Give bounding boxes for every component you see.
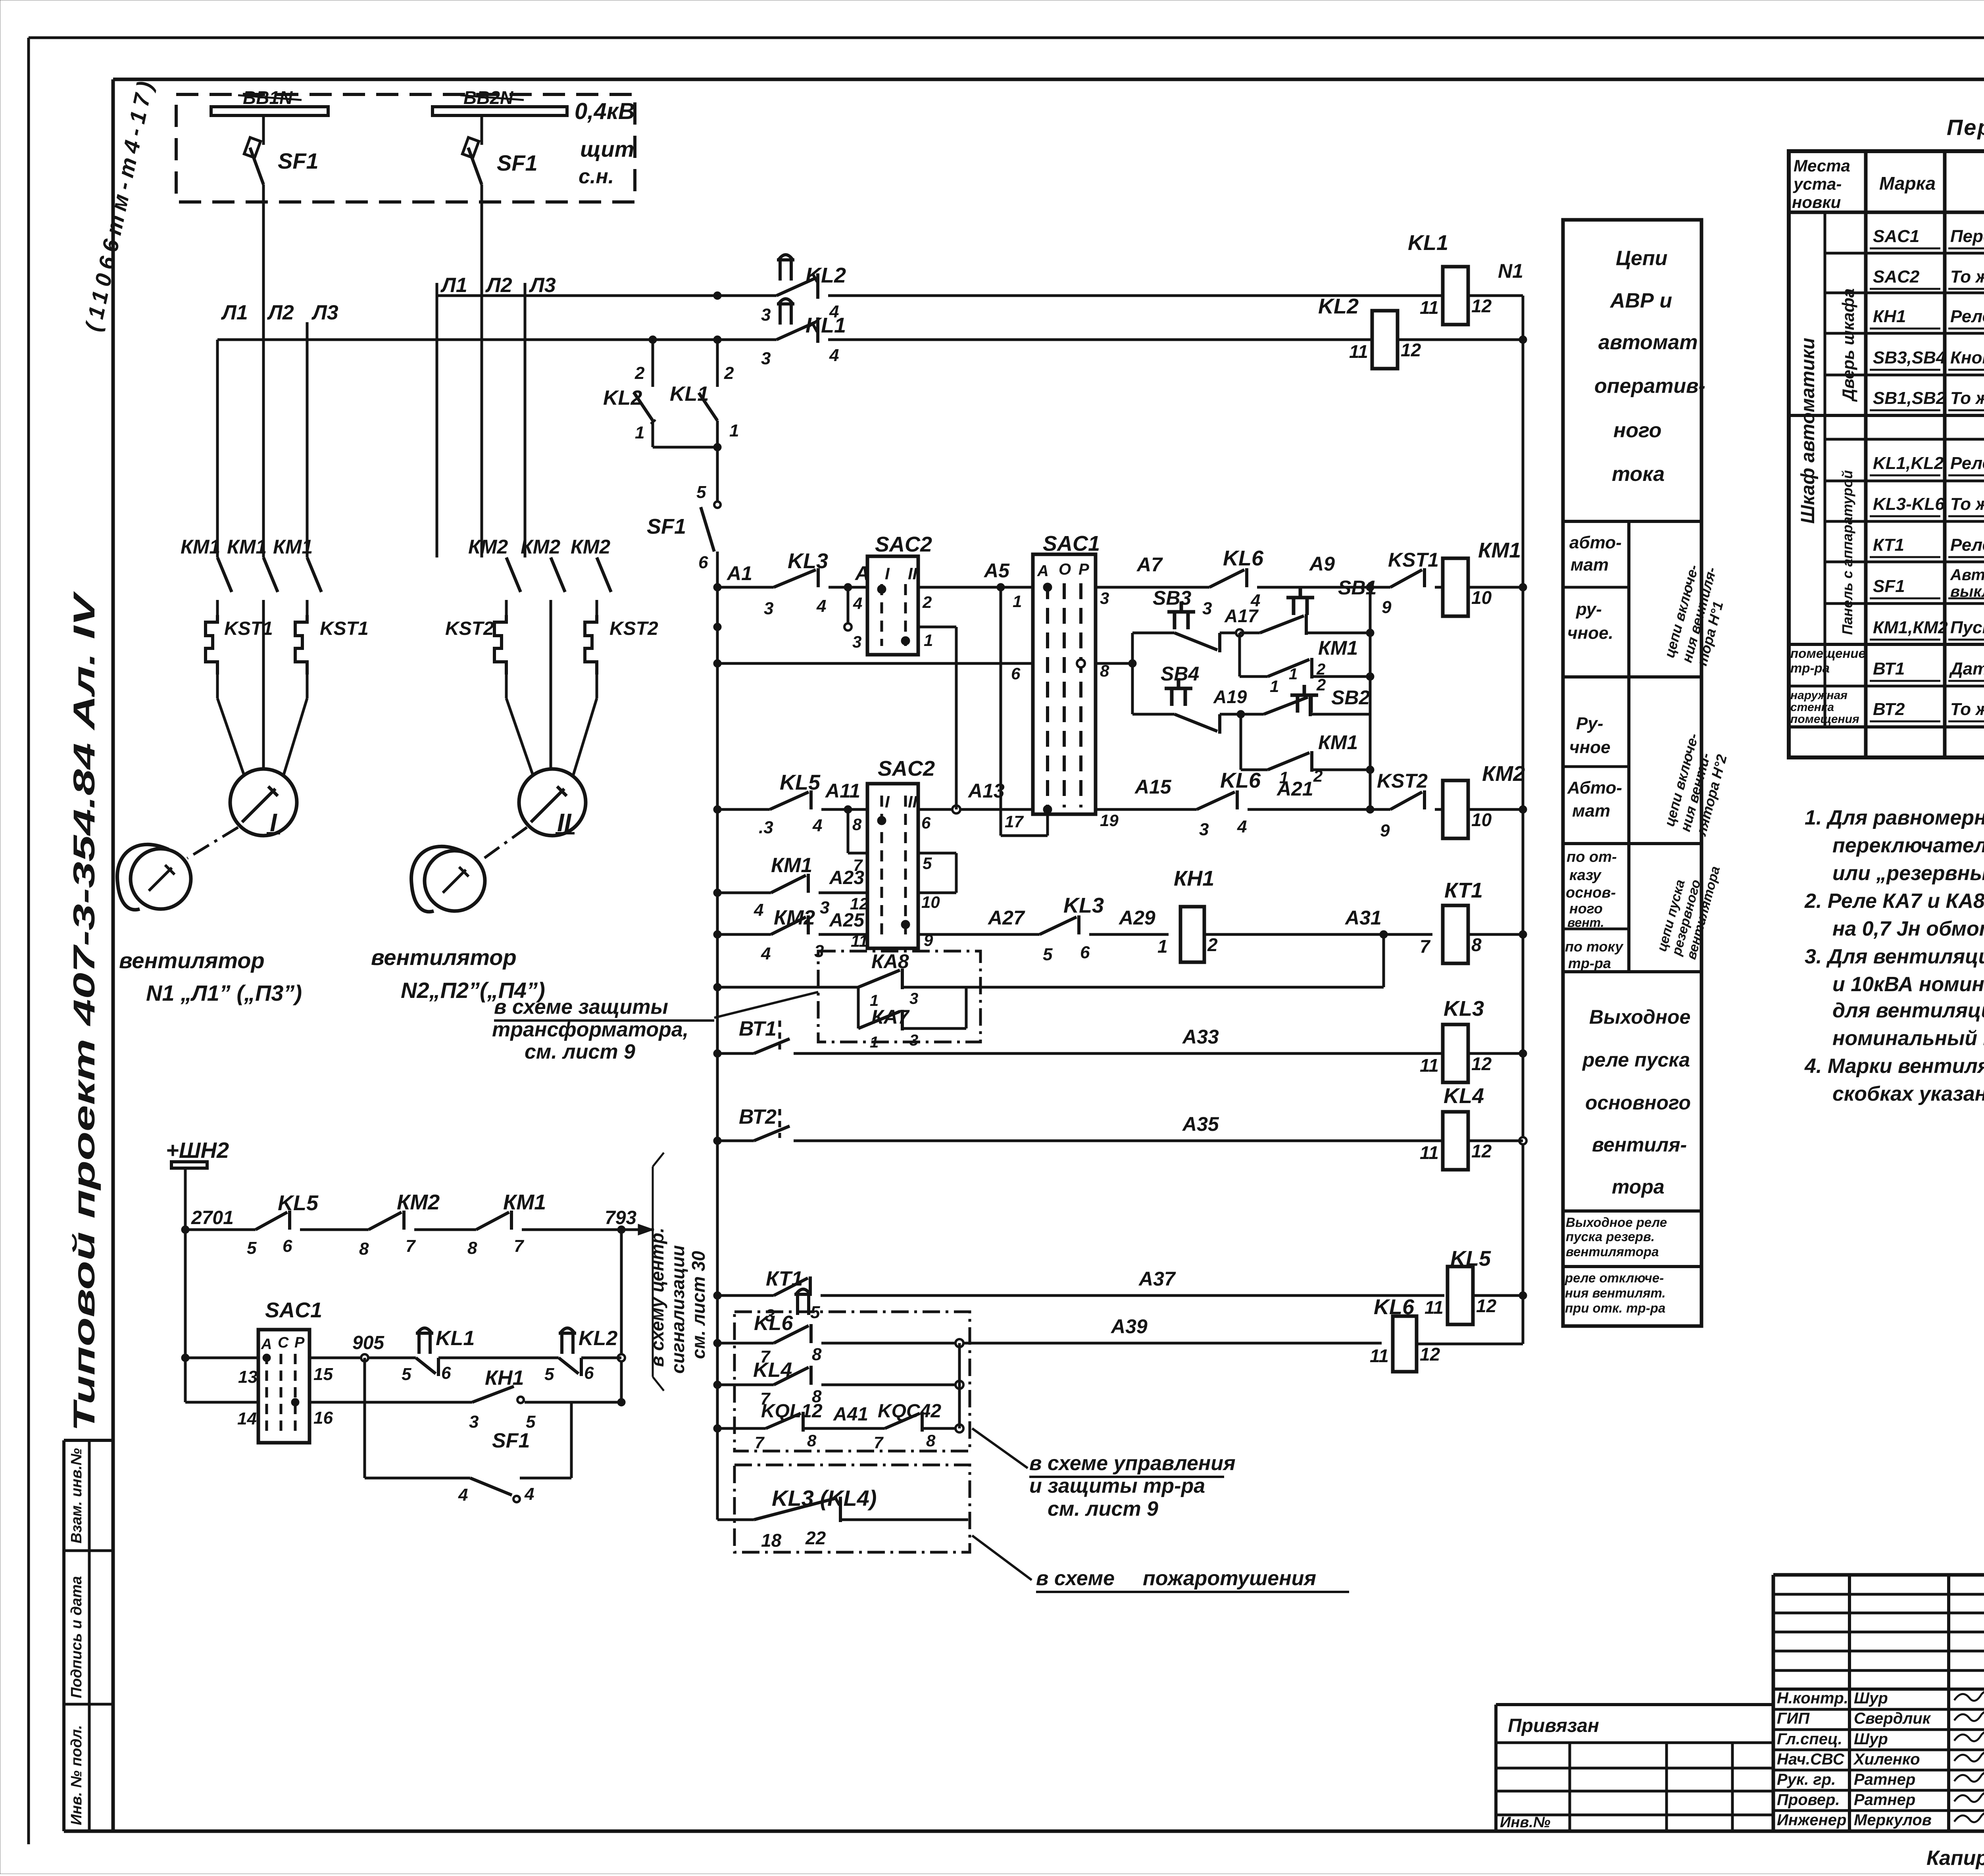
annotation пожаротушение: [972, 1536, 1032, 1580]
svg-text:Реле указательное: Реле указательное: [1950, 307, 1984, 326]
svg-text:14: 14: [237, 1409, 257, 1428]
svg-text:8: 8: [812, 1345, 822, 1364]
svg-text:автомат: автомат: [1598, 331, 1698, 354]
svg-text:6: 6: [584, 1363, 594, 1383]
svg-text:КМ1: КМ1: [1478, 538, 1521, 562]
box управления tr dash-dot: [734, 1312, 970, 1451]
svg-text:4: 4: [1237, 817, 1247, 836]
svg-text:SAC1: SAC1: [1043, 532, 1100, 555]
coil KM2: [1435, 808, 1443, 811]
svg-text:основ-: основ-: [1566, 884, 1616, 901]
svg-text:вентилятора: вентилятора: [1566, 1244, 1659, 1259]
node 905: [361, 1354, 368, 1361]
svg-text:тока: тока: [1612, 463, 1665, 486]
svg-text:КА7: КА7: [871, 1006, 910, 1028]
svg-text:8: 8: [807, 1431, 817, 1450]
svg-text:вентилятор: вентилятор: [371, 945, 517, 970]
wire t5 loop: [918, 852, 956, 855]
svg-text:17: 17: [1005, 812, 1024, 831]
svg-text:KST1: KST1: [320, 618, 369, 639]
svg-text:казу: казу: [1569, 867, 1602, 884]
svg-text:вентилятор: вентилятор: [119, 948, 265, 973]
svg-text:N1 „Л1” („П3”): N1 „Л1” („П3”): [146, 980, 302, 1005]
wire rung5: [918, 808, 1033, 811]
heater KST1 a: [206, 615, 217, 675]
svg-text:3: 3: [820, 898, 829, 917]
svg-text:Шур: Шур: [1854, 1690, 1888, 1707]
contact KM2 aux (rung7): [717, 933, 771, 936]
svg-text:6: 6: [1080, 943, 1090, 962]
svg-text:3: 3: [764, 599, 773, 618]
svg-text:12: 12: [1471, 1053, 1492, 1074]
svg-text:Свердлик: Свердлик: [1854, 1710, 1931, 1727]
switch SAC2 (lower): [847, 809, 850, 853]
svg-text:Взам. инв.№: Взам. инв.№: [68, 1448, 85, 1543]
svg-text:2: 2: [1313, 767, 1323, 785]
svg-text:8: 8: [467, 1238, 477, 1258]
svg-text:Л1: Л1: [440, 274, 467, 297]
svg-text:8: 8: [926, 1431, 936, 1450]
wire feeder: [716, 587, 719, 1520]
svg-text:А37: А37: [1138, 1268, 1176, 1290]
box KL3(KL4) dash-dot: [734, 1465, 970, 1552]
svg-text:3: 3: [761, 349, 771, 368]
coil KH1: [1180, 907, 1204, 962]
svg-text:KST1: KST1: [224, 618, 273, 639]
svg-text:3: 3: [469, 1412, 479, 1432]
svg-text:4: 4: [458, 1485, 468, 1505]
svg-text:Л3: Л3: [311, 301, 338, 324]
svg-text:KL6: KL6: [754, 1312, 793, 1335]
svg-text:19: 19: [1100, 811, 1119, 830]
svg-text:5: 5: [544, 1365, 554, 1384]
svg-text:Инженер: Инженер: [1777, 1811, 1846, 1829]
svg-text:15: 15: [313, 1365, 333, 1384]
wire KA7 branch: [857, 987, 860, 1028]
wire join: [653, 446, 717, 449]
svg-text:Инв. № подл.: Инв. № подл.: [68, 1725, 85, 1825]
node Л3 (fan2): [524, 283, 527, 557]
svg-text:KST2: KST2: [1377, 770, 1428, 792]
svg-text:КМ2: КМ2: [774, 906, 815, 929]
svg-text:Выходное реле: Выходное реле: [1566, 1215, 1667, 1230]
svg-text:11: 11: [1349, 341, 1368, 362]
heater KST2 b: [585, 615, 597, 675]
svg-text:А23: А23: [829, 867, 864, 888]
contact KL5 (signal): [256, 1212, 287, 1230]
motor U2 II: [519, 769, 586, 836]
svg-text:Ратнер: Ратнер: [1854, 1791, 1915, 1809]
wire subrung SB4: [1132, 713, 1175, 716]
contact KM1 aux (rung6): [717, 892, 771, 894]
svg-text:в схеме: в схеме: [1036, 1567, 1115, 1590]
wire rung A37: [821, 1294, 1444, 1297]
svg-text:6: 6: [441, 1363, 451, 1383]
contact KM1 (signal): [476, 1212, 509, 1230]
fan 2: [425, 851, 485, 911]
wire A5 branch down: [1000, 587, 1002, 836]
svg-text:Гл.спец.: Гл.спец.: [1777, 1730, 1842, 1748]
breaker SF1 (feeder 1): [262, 115, 265, 145]
svg-text:КМ1: КМ1: [181, 536, 220, 558]
svg-text:новки: новки: [1792, 193, 1841, 211]
svg-text:Р: Р: [294, 1334, 305, 1351]
svg-text:в схеме управления: в схеме управления: [1029, 1452, 1236, 1475]
svg-text:KL2: KL2: [1318, 294, 1359, 318]
wire rung3: [717, 586, 774, 589]
svg-text:KL6: KL6: [1220, 769, 1261, 792]
svg-text:3: 3: [761, 305, 771, 325]
wire rung A33: [794, 1052, 1443, 1055]
wire rail 2701: [185, 1228, 256, 1231]
svg-text:16: 16: [313, 1408, 333, 1428]
svg-text:SF1: SF1: [497, 150, 538, 175]
svg-text:5: 5: [696, 482, 706, 502]
svg-text:Л2: Л2: [267, 301, 294, 324]
svg-text:КН1: КН1: [1873, 307, 1906, 326]
svg-text:основного: основного: [1585, 1092, 1691, 1114]
svg-text:1: 1: [1013, 592, 1022, 611]
svg-text:КМ1: КМ1: [273, 536, 313, 558]
svg-text:То же: То же: [1950, 267, 1984, 286]
svg-text:Л2: Л2: [485, 274, 512, 297]
svg-text:3: 3: [852, 632, 861, 651]
heater KST2 a: [494, 615, 506, 675]
svg-text:и защиты тр-ра: и защиты тр-ра: [1029, 1474, 1205, 1497]
svg-text:ВТ2: ВТ2: [739, 1105, 777, 1128]
svg-text:0,4кВ: 0,4кВ: [575, 98, 635, 124]
svg-text:7: 7: [514, 1236, 525, 1256]
svg-text:Абто-: Абто-: [1567, 778, 1622, 798]
svg-text:II: II: [908, 792, 918, 811]
svg-text:9: 9: [1380, 821, 1390, 840]
wire: [262, 615, 265, 770]
svg-text:793: 793: [605, 1207, 636, 1228]
svg-text:KL1: KL1: [436, 1327, 475, 1350]
svg-text:Дверь шкафа: Дверь шкафа: [1839, 288, 1857, 402]
svg-text:+ШН2: +ШН2: [166, 1138, 229, 1163]
svg-text:2: 2: [1316, 675, 1326, 694]
svg-text:I: I: [885, 792, 890, 811]
contact KL2 (rail1): [777, 278, 815, 296]
svg-text:KL1: KL1: [670, 383, 709, 406]
title block: [1773, 1573, 1984, 1577]
svg-text:KL3-KL6: KL3-KL6: [1873, 494, 1945, 514]
svg-text:2: 2: [1207, 934, 1218, 955]
svg-text:6: 6: [1011, 664, 1021, 683]
svg-text:KL2: KL2: [806, 263, 846, 287]
svg-text:7: 7: [874, 1433, 884, 1452]
svg-text:Л3: Л3: [529, 274, 556, 297]
svg-text:тр-ра: тр-ра: [1568, 955, 1611, 971]
svg-text:4: 4: [829, 346, 839, 365]
svg-text:C: C: [278, 1334, 289, 1351]
svg-text:1. Для равномерного износа: 1. Для равномерного износа электродвигат…: [1805, 806, 1984, 829]
wire SAC2#1 out to A13: [918, 626, 956, 629]
svg-text:А25: А25: [829, 910, 865, 931]
svg-text:.3: .3: [759, 818, 773, 837]
svg-text:ру-: ру-: [1576, 600, 1602, 619]
svg-text:SAC1: SAC1: [1873, 227, 1919, 246]
svg-text:4: 4: [761, 944, 771, 963]
contact KL2 (signal): [559, 1332, 576, 1335]
wire rung5 through SAC1: [1096, 808, 1197, 811]
motor U1 I: [230, 769, 297, 836]
svg-text:5: 5: [526, 1412, 536, 1432]
svg-text:см. лист 30: см. лист 30: [688, 1251, 709, 1359]
svg-text:помещения: помещения: [1790, 713, 1859, 726]
coil KL1: [1443, 267, 1468, 325]
svg-text:6: 6: [283, 1236, 292, 1256]
vertical 3453: [1369, 587, 1372, 809]
svg-text:А41: А41: [833, 1404, 868, 1425]
svg-text:номинальный ток теплового: номинальный ток теплового элемента 40А .…: [1832, 1027, 1984, 1050]
svg-text:пуска резерв.: пуска резерв.: [1566, 1229, 1655, 1244]
svg-text:13: 13: [238, 1367, 258, 1387]
svg-text:SF1: SF1: [492, 1429, 530, 1452]
svg-text:KST1: KST1: [1388, 549, 1439, 571]
svg-text:1: 1: [870, 1034, 879, 1051]
svg-text:12: 12: [1420, 1344, 1440, 1365]
svg-text:Меркулов: Меркулов: [1854, 1811, 1932, 1829]
svg-text:мат: мат: [1572, 801, 1610, 821]
svg-text:SAC1: SAC1: [265, 1298, 322, 1322]
svg-text:2: 2: [922, 593, 932, 611]
svg-text:КМ2: КМ2: [468, 536, 508, 558]
svg-text:2: 2: [724, 363, 734, 383]
svg-text:Рук. гр.: Рук. гр.: [1777, 1771, 1836, 1788]
wire KA rung: [717, 986, 858, 989]
svg-text:KL1,KL2: KL1,KL2: [1873, 454, 1944, 473]
contact KA8: [858, 970, 900, 987]
node A19: [1237, 710, 1245, 718]
wire rung3 cont: [918, 586, 1033, 589]
svg-text:А31: А31: [1344, 907, 1382, 929]
svg-text:в схеме защиты: в схеме защиты: [494, 996, 668, 1019]
svg-text:KL5: KL5: [278, 1191, 319, 1215]
svg-text:SAC2: SAC2: [878, 757, 935, 780]
wire rung A27: [918, 933, 1040, 936]
svg-text:АВР и: АВР и: [1609, 289, 1672, 312]
svg-text:3: 3: [909, 990, 918, 1007]
svg-text:А11: А11: [825, 780, 860, 802]
vertical 2418: [958, 1343, 961, 1428]
contact KM2 (signal): [369, 1212, 402, 1230]
svg-text:трансформатора,: трансформатора,: [492, 1018, 688, 1041]
svg-text:KL1: KL1: [1408, 231, 1448, 255]
svg-text:4. Марки вентиляционных у: 4. Марки вентиляционных установок „ П3” …: [1804, 1055, 1984, 1078]
contact KST2: [1390, 792, 1422, 809]
svg-text:2: 2: [634, 363, 645, 383]
svg-text:реле отключе-: реле отключе-: [1565, 1271, 1664, 1285]
svg-text:щит: щит: [580, 136, 634, 161]
svg-text:3: 3: [1202, 599, 1212, 618]
svg-text:12: 12: [1471, 296, 1492, 316]
svg-text:ВТ1: ВТ1: [1873, 659, 1905, 679]
svg-text:7: 7: [1420, 936, 1431, 957]
wire rail1 N-side: [437, 294, 777, 297]
svg-text:или „резервный” для любо: или „резервный” для любого вентилятора.: [1832, 862, 1984, 885]
svg-text:с.н.: с.н.: [579, 165, 614, 188]
svg-text:1: 1: [924, 631, 933, 650]
svg-text:SF1: SF1: [647, 515, 686, 538]
svg-text:А29: А29: [1118, 907, 1155, 929]
svg-text:Панель с аппаратурой: Панель с аппаратурой: [1839, 470, 1855, 635]
svg-text:Ратнер: Ратнер: [1854, 1771, 1915, 1788]
contact KM1 holding: [1238, 633, 1241, 677]
svg-text:А: А: [261, 1336, 272, 1353]
svg-text:SB3: SB3: [1153, 587, 1191, 609]
right vertical 793-rail: [620, 1230, 623, 1402]
svg-text:КМ1: КМ1: [503, 1190, 546, 1214]
svg-text:4: 4: [853, 594, 862, 613]
svg-text:Перечень: Перечень: [1947, 115, 1984, 140]
svg-text:8: 8: [852, 815, 862, 834]
svg-text:чное.: чное.: [1567, 623, 1613, 643]
svg-text:6: 6: [698, 553, 708, 572]
svg-text:КН1: КН1: [485, 1367, 524, 1390]
svg-text:абто-: абто-: [1569, 533, 1622, 552]
svg-text:SB2: SB2: [1331, 686, 1370, 709]
wires to motor: [506, 698, 534, 778]
svg-text:КМ1: КМ1: [1318, 637, 1358, 659]
svg-text:КМ1: КМ1: [227, 536, 267, 558]
vertical 2854: [1131, 633, 1134, 714]
wire rung A39: [821, 1342, 1382, 1345]
svg-text:А21: А21: [1276, 778, 1313, 800]
svg-text:А17: А17: [1224, 605, 1259, 626]
fan 1: [131, 849, 191, 909]
svg-text:вентиля-: вентиля-: [1592, 1134, 1687, 1156]
link motor-fan: [481, 827, 527, 860]
svg-text:4: 4: [754, 900, 763, 920]
svg-text:А19: А19: [1213, 686, 1247, 707]
svg-text:KL5: KL5: [1450, 1247, 1491, 1271]
svg-text:KL2: KL2: [579, 1327, 617, 1350]
node function column: [1563, 220, 1701, 1326]
svg-text:5: 5: [1043, 945, 1053, 964]
svg-text:Подпись и дата: Подпись и дата: [68, 1576, 85, 1698]
contact KL1 aux (on feeder): [716, 340, 719, 387]
svg-text:4: 4: [812, 816, 822, 835]
svg-text:А35: А35: [1182, 1113, 1219, 1135]
svg-text:при отк. тр-ра: при отк. тр-ра: [1565, 1301, 1665, 1315]
svg-text:KL2: KL2: [603, 386, 642, 409]
svg-text:Цепи: Цепи: [1616, 247, 1667, 270]
svg-text:12: 12: [1401, 340, 1421, 360]
svg-text:КТ1: КТ1: [1873, 535, 1904, 555]
svg-text:SF1: SF1: [1873, 577, 1905, 596]
svg-text:Типовой проект 407-3-354.84 А: Типовой проект 407-3-354.84 Ал. IV: [67, 591, 101, 1432]
svg-text:Инв.№: Инв.№: [1500, 1814, 1550, 1831]
svg-text:11: 11: [1370, 1345, 1389, 1366]
svg-text:стенка: стенка: [1790, 701, 1834, 714]
svg-text:КА8: КА8: [871, 950, 909, 973]
svg-text:7: 7: [406, 1236, 416, 1256]
svg-text:КМ2: КМ2: [521, 536, 560, 558]
svg-text:Хиленко: Хиленко: [1853, 1751, 1920, 1768]
svg-text:в схему центр.: в схему центр.: [647, 1228, 667, 1367]
svg-text:SF1: SF1: [278, 148, 319, 173]
svg-text:сигнализации: сигнализации: [667, 1245, 688, 1374]
svg-text:А15: А15: [1134, 776, 1172, 798]
wire lower branch 14-16: [185, 1401, 258, 1404]
svg-text:8: 8: [1471, 934, 1482, 955]
aux board щит с.н. dashed box: [176, 94, 635, 202]
svg-text:Места: Места: [1794, 156, 1850, 175]
node Л1 (fan1): [216, 340, 219, 557]
svg-text:Ру-: Ру-: [1576, 714, 1603, 733]
svg-text:KL6: KL6: [1223, 546, 1264, 570]
svg-text:КТ1: КТ1: [1444, 878, 1483, 902]
svg-text:Р: Р: [1079, 561, 1089, 578]
svg-text:11: 11: [1420, 297, 1439, 318]
svg-text:4: 4: [816, 596, 826, 616]
svg-text:2. Реле КА7 и КА8 в цепях: 2. Реле КА7 и КА8 в цепях защиты трансфо…: [1804, 890, 1984, 913]
svg-text:KL3: KL3: [1444, 997, 1484, 1021]
svg-text:KL3: KL3: [1063, 894, 1104, 917]
svg-text:вент.: вент.: [1567, 915, 1604, 930]
coil KM1: [1435, 586, 1443, 589]
right rail N1: [1522, 296, 1525, 1296]
svg-text:3. Для вентиляционных уста: 3. Для вентиляционных установок мощность…: [1805, 945, 1984, 968]
contact KL1 (rail2): [777, 322, 815, 340]
breaker SF1 (feeder 2): [481, 115, 483, 145]
svg-text:N1: N1: [1498, 260, 1523, 282]
svg-text:5: 5: [923, 854, 932, 873]
svg-text:12: 12: [1471, 1141, 1492, 1161]
svg-text:SB3,SB4: SB3,SB4: [1873, 348, 1946, 367]
svg-text:То же: То же: [1950, 700, 1984, 719]
svg-text:наружная: наружная: [1790, 689, 1848, 702]
svg-text:А27: А27: [987, 907, 1025, 929]
svg-text:Кнопка управления: Кнопка управления: [1950, 348, 1984, 367]
wire SF1 branch: [363, 1358, 366, 1478]
svg-text:Пускатель магнитный: Пускатель магнитный: [1950, 618, 1984, 637]
coil KL6: [1393, 1316, 1417, 1372]
svg-text:см. лист 9: см. лист 9: [1048, 1497, 1158, 1520]
svg-text:А13: А13: [967, 780, 1005, 802]
switch SAC2 (upper): [867, 556, 918, 655]
svg-text:Шкаф автоматики: Шкаф автоматики: [1798, 338, 1819, 524]
svg-text:переключателем SAC2 выбир: переключателем SAC2 выбирается режим раб…: [1832, 834, 1984, 857]
svg-text:11: 11: [1420, 1142, 1439, 1163]
box KA relays dash-dot: [818, 951, 980, 1042]
svg-text:KL4: KL4: [1444, 1084, 1484, 1108]
svg-text:1: 1: [1270, 677, 1279, 696]
svg-text:О: О: [1059, 561, 1071, 578]
svg-text:8: 8: [359, 1239, 369, 1259]
node Л3 (fan1): [306, 322, 309, 557]
svg-text:Капировал Винарская: Капировал Винарская: [1926, 1847, 1984, 1870]
svg-text:10: 10: [1471, 587, 1492, 608]
svg-text:1: 1: [635, 423, 644, 442]
svg-text:3: 3: [909, 1032, 918, 1049]
svg-text:реле пуска: реле пуска: [1582, 1049, 1690, 1071]
svg-text:Выходное: Выходное: [1589, 1006, 1690, 1028]
svg-text:SAC2: SAC2: [875, 532, 932, 556]
wire stub A3-A4: [847, 587, 850, 627]
svg-text:КМ2: КМ2: [397, 1190, 440, 1214]
svg-text:А9: А9: [1309, 553, 1335, 575]
svg-text:1: 1: [1289, 665, 1298, 683]
svg-text:и 10кВА номинальный ток: и 10кВА номинальный ток теплового элемен…: [1832, 973, 1984, 996]
svg-text:Шур: Шур: [1854, 1730, 1888, 1748]
svg-text:оператив-: оператив-: [1594, 375, 1705, 398]
svg-text:KL3: KL3: [788, 549, 828, 573]
busbar BB2N: [433, 107, 567, 115]
svg-text:Датчик температуры: Датчик температуры: [1949, 659, 1984, 679]
